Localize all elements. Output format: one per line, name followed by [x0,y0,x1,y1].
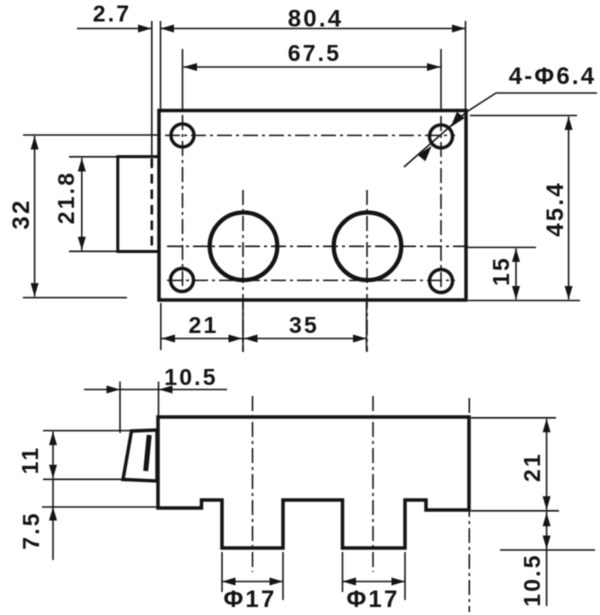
centerline through boss 2 (front view) [372,396,374,572]
dimension 10.5 (front view right) [500,512,595,606]
body outline (front view) with two bottom bosses [158,417,469,548]
centerline vertical through big port 2 [366,190,368,352]
main plate outline (top view) [159,111,466,301]
svg-text:32: 32 [8,198,35,229]
dimension 21 (front view right) [471,418,559,511]
left tab (top view) [118,157,159,252]
dimension 11 [43,431,131,480]
svg-text:80.4: 80.4 [288,6,344,33]
big port circle 1 [210,213,278,281]
dimension 10.5 (front view top) [84,382,227,434]
svg-text:7.5: 7.5 [18,511,44,550]
left tab (front view) [123,430,157,481]
svg-text:10.5: 10.5 [519,553,545,607]
centerline vertical through right mounting holes [440,49,442,112]
centerline through boss 1 (front view) [252,396,254,572]
svg-text:Φ17: Φ17 [224,586,277,613]
dimension 15 [467,247,536,299]
dimension 7.5 [42,479,158,560]
centerline horizontal through bottom mounting holes [167,279,455,281]
centerline horizontal through top mounting holes [165,134,455,136]
big port circle 2 [334,213,402,281]
dimension 21.8 [69,157,157,252]
dimension 67.5 [184,63,441,71]
dimension 2.7 [77,21,152,155]
svg-text:2.7: 2.7 [93,1,132,27]
hidden edge of tab (dashed) [151,159,154,251]
dimension 45.4 [468,116,580,301]
svg-text:21: 21 [519,452,545,482]
svg-text:10.5: 10.5 [164,364,218,390]
dimension phi17 boss 2 [343,552,406,600]
svg-text:Φ17: Φ17 [347,586,400,613]
mounting hole top-right [430,125,453,148]
svg-text:11: 11 [17,446,43,475]
mounting hole bottom-left [171,269,194,292]
dimension 32 [23,135,160,298]
svg-text:4-Φ6.4: 4-Φ6.4 [509,63,597,90]
mounting hole bottom-right [430,270,453,293]
svg-text:67.5: 67.5 [288,40,342,66]
hole callout 4-phi6.4 leader [404,93,597,167]
centerline right side (front view) [468,398,470,612]
svg-text:15: 15 [488,256,514,286]
dimensions 21 and 35 below top view [161,302,367,351]
svg-text:45.4: 45.4 [542,181,569,237]
svg-text:21: 21 [189,312,219,338]
centerline vertical through big port 1 [242,190,244,352]
dimension phi17 boss 1 [222,552,283,600]
svg-text:21.8: 21.8 [53,171,79,225]
svg-text:35: 35 [289,312,319,338]
centerline vertical through left mounting holes [182,49,184,111]
mounting hole top-left [171,124,194,147]
centerline horizontal through big ports [167,245,468,247]
tab inner edge (front view) [146,435,150,471]
dimension 80.4 [161,21,466,109]
